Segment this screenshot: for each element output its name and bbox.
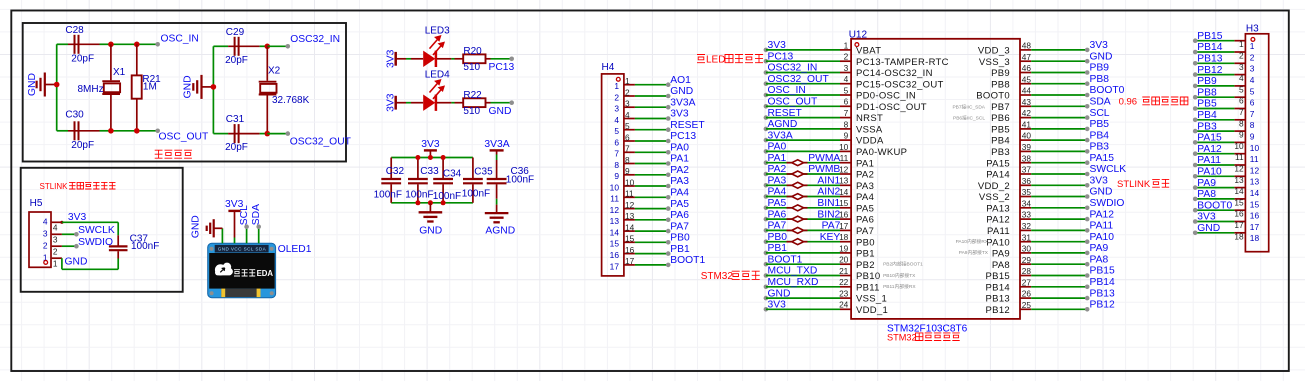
svg-text:C31: C31: [226, 114, 245, 125]
U12 pin 2 PC13-TAMPER-RTC net PC13: [764, 59, 769, 64]
svg-text:PA13: PA13: [986, 203, 1010, 214]
svg-text:40: 40: [1022, 131, 1032, 141]
svg-text:PB4: PB4: [991, 136, 1010, 147]
svg-text:SDA: SDA: [251, 204, 262, 225]
svg-text:13: 13: [839, 176, 849, 186]
net label SDA (OLED): [256, 224, 261, 229]
wire: [111, 43, 137, 45]
U12 pin 40 PB4 net PB4: [1020, 139, 1031, 141]
svg-text:SCL: SCL: [1090, 108, 1110, 119]
svg-text:10: 10: [1234, 141, 1244, 151]
svg-text:20pF: 20pF: [71, 140, 94, 151]
svg-text:3V3: 3V3: [1197, 212, 1216, 223]
svg-text:BOOT0: BOOT0: [1090, 85, 1125, 96]
wire: [267, 45, 288, 47]
U12 pin 3 PC14-OSC32_IN net OSC32_IN: [764, 70, 769, 75]
svg-text:16: 16: [839, 210, 849, 220]
svg-text:18: 18: [1234, 231, 1244, 241]
svg-text:BOOT1: BOOT1: [670, 255, 705, 266]
svg-text:LED: LED: [706, 55, 725, 66]
svg-text:VDD_2: VDD_2: [978, 181, 1010, 192]
svg-text:PB4: PB4: [1090, 130, 1110, 141]
svg-text:PA5: PA5: [670, 199, 689, 210]
net label GND: [509, 100, 514, 105]
net label SWCLK: [62, 233, 77, 235]
svg-text:2: 2: [53, 246, 58, 256]
svg-text:33: 33: [1022, 210, 1032, 220]
svg-text:47: 47: [1022, 52, 1032, 62]
svg-text:SDA: SDA: [1090, 97, 1111, 108]
svg-text:45: 45: [1022, 74, 1032, 84]
svg-text:PB13: PB13: [1197, 54, 1222, 65]
U12 pin 18 PB0 net PB0: [764, 239, 769, 244]
svg-text:VDD_3: VDD_3: [978, 46, 1010, 57]
svg-text:PB4: PB4: [1197, 110, 1217, 121]
svg-text:2: 2: [43, 241, 48, 251]
U12 pin 38 PA15 net PA15: [1020, 162, 1031, 164]
svg-text:15: 15: [1234, 197, 1244, 207]
svg-text:PA8: PA8: [1197, 189, 1216, 200]
svg-text:12: 12: [625, 200, 635, 210]
resistor R22 510: [455, 102, 464, 104]
pin1 marker: [616, 77, 620, 81]
svg-text:BIN2: BIN2: [817, 209, 840, 220]
svg-text:38: 38: [1022, 153, 1032, 163]
svg-text:STLINK: STLINK: [40, 182, 69, 191]
svg-text:PA9: PA9: [1090, 243, 1109, 254]
U12 pin 25 PB12 net PB12: [1020, 308, 1031, 310]
svg-text:PA7: PA7: [822, 221, 841, 232]
svg-text:26: 26: [1022, 289, 1032, 299]
svg-text:15: 15: [610, 239, 620, 249]
U12 pin 44 BOOT0 net BOOT0: [1020, 94, 1031, 96]
U12 pin 47 VSS_3 net GND: [1020, 60, 1031, 62]
svg-text:32: 32: [1022, 221, 1032, 231]
svg-text:PA0: PA0: [768, 142, 787, 153]
svg-text:PB14: PB14: [1090, 277, 1115, 288]
net label PC13: [509, 57, 514, 62]
svg-text:3: 3: [1239, 62, 1244, 72]
svg-text:BOOT1: BOOT1: [768, 254, 803, 265]
svg-text:GND: GND: [190, 215, 201, 238]
svg-text:PA6: PA6: [670, 210, 689, 221]
bypass capacitor rail: [391, 157, 473, 159]
svg-text:PA9内部接TX: PA9内部接TX: [959, 249, 989, 256]
svg-text:1: 1: [844, 40, 849, 50]
svg-text:OSC_OUT: OSC_OUT: [768, 97, 818, 108]
U12 pin 17 PA7 net PA7: [764, 228, 769, 233]
svg-text:OLED1: OLED1: [278, 244, 312, 255]
svg-text:22: 22: [839, 277, 849, 287]
resistor R20 510: [455, 58, 464, 60]
OLED1 module: [208, 243, 276, 297]
net 3V3 wire (H5 pin4): [60, 221, 63, 224]
svg-text:3: 3: [43, 229, 48, 239]
svg-text:8MHz: 8MHz: [78, 84, 104, 95]
capacitor C32 100nF: [390, 158, 392, 179]
svg-text:PA1: PA1: [856, 158, 874, 169]
wire: [56, 44, 58, 131]
svg-text:41: 41: [1022, 120, 1032, 130]
svg-text:12: 12: [839, 164, 849, 174]
svg-text:PB0: PB0: [856, 237, 875, 248]
svg-text:4: 4: [1250, 75, 1255, 85]
svg-text:12: 12: [1250, 165, 1260, 175]
wire: [212, 46, 214, 133]
svg-text:13: 13: [625, 211, 635, 221]
svg-text:PA15: PA15: [986, 158, 1010, 169]
U12 pin 9 VDDA net 3V3A: [764, 138, 769, 143]
U12 pin 20 PB2 net BOOT1: [764, 262, 769, 267]
svg-text:32.768K: 32.768K: [272, 95, 310, 106]
svg-text:GND: GND: [65, 256, 88, 267]
svg-text:4: 4: [53, 223, 58, 233]
svg-text:7: 7: [844, 108, 849, 118]
svg-text:3: 3: [844, 63, 849, 73]
svg-text:PB5: PB5: [991, 125, 1010, 136]
svg-text:3V3A: 3V3A: [670, 97, 695, 108]
svg-text:3V3: 3V3: [768, 300, 787, 311]
svg-text:8: 8: [1250, 120, 1255, 130]
svg-text:8: 8: [1239, 118, 1244, 128]
ground GND (crystal A): [45, 84, 57, 86]
U12 pin 39 PB3 net PB3: [1020, 150, 1031, 152]
svg-text:100nF: 100nF: [131, 241, 159, 252]
svg-text:C33: C33: [420, 166, 439, 177]
svg-text:PA15: PA15: [1197, 133, 1222, 144]
svg-text:PB8: PB8: [991, 79, 1010, 90]
svg-text:36: 36: [1022, 176, 1032, 186]
svg-text:3V3: 3V3: [1090, 40, 1109, 51]
svg-text:14: 14: [625, 222, 635, 232]
svg-text:BIN1: BIN1: [817, 198, 840, 209]
svg-text:3V3: 3V3: [768, 40, 787, 51]
svg-text:PB13: PB13: [1090, 288, 1115, 299]
svg-text:GND: GND: [1090, 51, 1113, 62]
svg-text:PA4: PA4: [670, 188, 689, 199]
STLINK download port group box: [21, 168, 183, 292]
label 加LED便于调试: [697, 55, 705, 63]
svg-text:MCU_RXD: MCU_RXD: [768, 277, 819, 288]
svg-text:14: 14: [839, 187, 849, 197]
svg-text:GND: GND: [182, 75, 193, 98]
svg-text:16: 16: [610, 250, 620, 260]
svg-text:5: 5: [844, 85, 849, 95]
ground GND (rail): [429, 203, 431, 213]
svg-text:PA1: PA1: [768, 153, 787, 164]
svg-text:2: 2: [625, 87, 630, 97]
U12 pin 31 PA10 net PA10: [1020, 241, 1031, 243]
U12 pin 29 PA8 net PA8: [1020, 263, 1031, 265]
svg-text:VSS_3: VSS_3: [979, 57, 1010, 68]
wire: [437, 102, 452, 104]
svg-text:4: 4: [614, 115, 619, 125]
LED LED4: [411, 102, 423, 104]
svg-text:16: 16: [1250, 211, 1260, 221]
svg-text:PC15-OSC32_OUT: PC15-OSC32_OUT: [856, 79, 944, 90]
svg-text:SWDIO: SWDIO: [78, 237, 113, 248]
svg-text:43: 43: [1022, 97, 1032, 107]
U12 pin 11 PA1 net PA1: [764, 160, 769, 165]
svg-text:2: 2: [1239, 51, 1244, 61]
svg-text:PA9: PA9: [992, 249, 1010, 260]
logo 嘉立创EDA: [215, 263, 233, 276]
U12 pin 41 PB5 net PB5: [1020, 128, 1031, 130]
svg-text:27: 27: [1022, 277, 1032, 287]
svg-text:PA4: PA4: [768, 187, 787, 198]
svg-text:PB10内部接TX: PB10内部接TX: [883, 272, 916, 279]
svg-text:GND: GND: [670, 86, 693, 97]
U12 pin 13 PA3 net PA3: [764, 183, 769, 188]
net port PWMA: [787, 162, 792, 164]
net GND wire (H5 pin1): [61, 258, 63, 269]
svg-text:23: 23: [839, 289, 849, 299]
U12 pin 27 PB14 net PB14: [1020, 286, 1031, 288]
svg-text:3: 3: [614, 104, 619, 114]
svg-text:510: 510: [463, 106, 480, 117]
svg-text:PA5: PA5: [856, 203, 874, 214]
svg-text:VDDA: VDDA: [856, 136, 884, 147]
svg-text:OSC32_IN: OSC32_IN: [290, 34, 340, 45]
U12 pin 19 PB1 net PB1: [764, 251, 769, 256]
ground GND (crystal B): [202, 86, 214, 88]
svg-text:1M: 1M: [143, 82, 157, 93]
svg-text:7: 7: [1250, 109, 1255, 119]
U12 pin 32 PA11 net PA11: [1020, 229, 1031, 231]
svg-text:10: 10: [625, 177, 635, 187]
svg-text:PB8: PB8: [1090, 74, 1110, 85]
svg-text:4: 4: [844, 74, 849, 84]
svg-text:15: 15: [1250, 199, 1260, 209]
U12 pin 35 VSS_2 net GND: [1020, 196, 1031, 198]
svg-text:PB15: PB15: [1197, 31, 1222, 42]
svg-text:C34: C34: [443, 168, 462, 179]
U12 pin 48 VDD_3 net 3V3: [1020, 49, 1031, 51]
net port PWMB: [787, 173, 792, 175]
svg-text:PB1: PB1: [670, 244, 690, 255]
svg-text:PA6: PA6: [768, 209, 787, 220]
svg-text:8: 8: [844, 119, 849, 129]
wire: [406, 58, 411, 60]
svg-text:OSC32_OUT: OSC32_OUT: [290, 136, 352, 147]
svg-text:OSC32_IN: OSC32_IN: [768, 63, 818, 74]
svg-text:14: 14: [1250, 188, 1260, 198]
svg-text:PB1: PB1: [856, 249, 875, 260]
U12 pin 22 PB11 net MCU_RXD: [764, 285, 769, 290]
svg-text:11: 11: [840, 153, 849, 163]
svg-text:15: 15: [839, 198, 849, 208]
svg-text:21: 21: [839, 266, 849, 276]
U12 pin 5 PD0-OSC_IN net OSC_IN: [764, 93, 769, 98]
LED LED3: [411, 58, 423, 60]
svg-text:PA6: PA6: [856, 215, 874, 226]
svg-text:PB3: PB3: [1090, 142, 1110, 153]
svg-text:PA8: PA8: [992, 260, 1010, 271]
svg-text:BOOT0: BOOT0: [976, 91, 1010, 102]
net label OSC32_IN: [286, 44, 291, 49]
svg-text:6: 6: [1250, 98, 1255, 108]
svg-text:PB9: PB9: [1090, 63, 1110, 74]
svg-text:R22: R22: [463, 90, 482, 101]
svg-text:PB11: PB11: [856, 282, 880, 293]
svg-text:4: 4: [1239, 73, 1244, 83]
svg-text:GND: GND: [768, 288, 791, 299]
svg-text:1: 1: [625, 76, 630, 86]
U12 pin 1 VBAT net 3V3: [764, 48, 769, 53]
svg-text:20: 20: [839, 255, 849, 265]
resistor R21 1M: [136, 44, 138, 76]
svg-text:9: 9: [1239, 130, 1244, 140]
svg-text:17: 17: [1250, 222, 1260, 232]
svg-text:PA1: PA1: [670, 154, 689, 165]
svg-text:C35: C35: [474, 167, 493, 178]
svg-text:PB9: PB9: [1197, 76, 1217, 87]
svg-text:PB14: PB14: [986, 282, 1010, 293]
svg-text:PD1-OSC_OUT: PD1-OSC_OUT: [856, 102, 927, 113]
U12 pin 10 PA0-WKUP net PA0: [764, 149, 769, 154]
U12 pin 28 PB15 net PB15: [1020, 275, 1031, 277]
svg-text:20pF: 20pF: [225, 142, 248, 153]
svg-text:16: 16: [1234, 209, 1244, 219]
node junction: [54, 82, 60, 88]
wire: [491, 58, 512, 60]
svg-text:GND: GND: [419, 226, 442, 237]
svg-text:PA4: PA4: [856, 192, 874, 203]
svg-text:NRST: NRST: [856, 113, 883, 124]
svg-text:VSS_1: VSS_1: [856, 294, 887, 305]
ground AGND: [496, 205, 498, 214]
svg-text:12: 12: [610, 205, 620, 215]
svg-text:X2: X2: [268, 66, 281, 77]
svg-text:SWCLK: SWCLK: [78, 225, 115, 236]
svg-text:7: 7: [1239, 107, 1244, 117]
svg-text:PA15: PA15: [1090, 153, 1115, 164]
svg-text:PC13: PC13: [670, 131, 696, 142]
svg-text:13: 13: [610, 216, 620, 226]
svg-text:R20: R20: [463, 46, 482, 57]
svg-text:4: 4: [43, 217, 48, 227]
svg-text:PC14-OSC32_IN: PC14-OSC32_IN: [856, 68, 933, 79]
U12 pin 12 PA2 net PA2: [764, 172, 769, 177]
svg-text:MCU_TXD: MCU_TXD: [768, 266, 818, 277]
svg-text:28: 28: [1022, 266, 1032, 276]
svg-text:PB14: PB14: [1197, 42, 1222, 53]
svg-text:1: 1: [614, 81, 619, 91]
svg-text:2: 2: [614, 92, 619, 102]
svg-text:STM32: STM32: [887, 332, 917, 342]
svg-text:PA11: PA11: [1090, 221, 1114, 232]
svg-text:VSS_2: VSS_2: [979, 192, 1010, 203]
svg-text:12: 12: [1234, 164, 1244, 174]
svg-text:510: 510: [463, 62, 480, 73]
svg-text:5: 5: [1239, 84, 1244, 94]
svg-text:7: 7: [625, 144, 630, 154]
svg-text:PB7: PB7: [991, 102, 1010, 113]
net port AIN2: [787, 196, 792, 198]
svg-text:24: 24: [839, 300, 849, 310]
svg-text:4: 4: [625, 110, 630, 120]
capacitor C33 100nF: [417, 158, 419, 179]
U12 pin 43 PB7 net SDA: [1020, 105, 1031, 107]
svg-text:GND VCC SCL SDA: GND VCC SCL SDA: [218, 247, 267, 252]
svg-text:PA7: PA7: [856, 226, 874, 237]
svg-text:PA5: PA5: [768, 198, 787, 209]
U12 pin 33 PA12 net PA12: [1020, 218, 1031, 220]
svg-text:OSC_IN: OSC_IN: [161, 34, 199, 45]
capacitor C28: [57, 43, 68, 45]
svg-text:3V3: 3V3: [421, 139, 440, 150]
U12 pin 23 VSS_1 net GND: [764, 296, 769, 301]
U12 pin 46 PB9 net PB9: [1020, 72, 1031, 74]
svg-text:PB0: PB0: [670, 233, 690, 244]
capacitor C34 100nF: [442, 158, 444, 179]
pin1 marker: [855, 43, 859, 47]
svg-text:44: 44: [1022, 86, 1032, 96]
U12 pin 21 PB10 net MCU_TXD: [764, 273, 769, 278]
U12 pin 42 PB6 net SCL: [1020, 117, 1031, 119]
svg-text:29: 29: [1022, 255, 1032, 265]
svg-text:X1: X1: [113, 67, 126, 78]
svg-text:PA10: PA10: [1090, 232, 1115, 243]
svg-text:14: 14: [1234, 186, 1244, 196]
capacitor C37 100nF: [117, 222, 119, 235]
svg-text:17: 17: [625, 256, 635, 266]
svg-text:PA12: PA12: [1090, 209, 1115, 220]
svg-text:8: 8: [614, 160, 619, 170]
svg-text:STLINK: STLINK: [1117, 179, 1151, 190]
svg-text:10: 10: [1250, 143, 1260, 153]
svg-text:KEY: KEY: [820, 232, 841, 243]
svg-text:GND: GND: [1197, 223, 1220, 234]
svg-text:13: 13: [1234, 175, 1244, 185]
capacitor C29: [213, 45, 228, 47]
net label OSC_OUT: [155, 129, 160, 134]
svg-text:PB12: PB12: [1090, 300, 1115, 311]
svg-text:OSC_IN: OSC_IN: [768, 85, 806, 96]
svg-text:6: 6: [1239, 96, 1244, 106]
svg-text:100nF: 100nF: [405, 189, 433, 200]
svg-text:GND: GND: [489, 106, 512, 117]
U12 pin 15 PA5 net PA5: [764, 206, 769, 211]
pin1 marker: [44, 261, 48, 265]
svg-text:VDD_1: VDD_1: [856, 305, 888, 316]
U12 pin 16 PA6 net PA6: [764, 217, 769, 222]
svg-text:PB11内部接RX: PB11内部接RX: [883, 283, 916, 290]
svg-text:18: 18: [839, 232, 849, 242]
svg-text:19: 19: [839, 243, 849, 253]
svg-text:PB3: PB3: [991, 147, 1010, 158]
svg-text:100nF: 100nF: [433, 191, 461, 202]
svg-text:PA3: PA3: [856, 181, 874, 192]
svg-text:5: 5: [625, 121, 630, 131]
svg-text:PB0: PB0: [768, 232, 788, 243]
svg-text:AO1: AO1: [670, 75, 691, 86]
svg-text:AGND: AGND: [485, 226, 515, 237]
svg-text:30: 30: [1022, 244, 1032, 254]
svg-text:PA12: PA12: [1197, 144, 1222, 155]
svg-text:PA0-WKUP: PA0-WKUP: [856, 147, 907, 158]
svg-text:PA11: PA11: [987, 226, 1010, 237]
svg-text:SWDIO: SWDIO: [1090, 198, 1125, 209]
svg-text:AIN2: AIN2: [817, 187, 840, 198]
svg-text:20pF: 20pF: [71, 54, 94, 65]
svg-text:VBAT: VBAT: [856, 46, 881, 57]
U12 pin 34 PA13 net SWDIO: [1020, 207, 1031, 209]
svg-text:PB9: PB9: [991, 68, 1010, 79]
svg-text:PB3: PB3: [1197, 121, 1217, 132]
svg-text:PA10: PA10: [986, 237, 1010, 248]
U12 pin 7 NRST net RESET: [764, 115, 769, 120]
